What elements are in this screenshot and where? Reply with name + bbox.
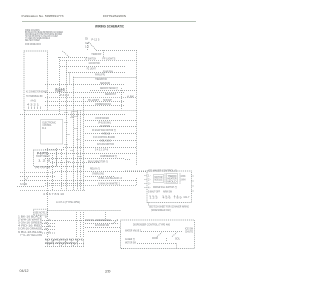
- PTC start relay box: [34, 150, 57, 166]
- ice box pin ticks: [152, 196, 154, 198]
- svg-text:4 RD-18: 4 RD-18: [102, 133, 111, 135]
- wire: [69, 73, 71, 85]
- svg-text:SEE TECH SHEET: SEE TECH SHEET: [25, 40, 40, 42]
- svg-text:4 -: 4 -: [148, 187, 151, 189]
- svg-text:P-12 5: P-12 5: [91, 40, 100, 42]
- power cord slant: [24, 178, 28, 182]
- bottom switch tick: [65, 241, 67, 247]
- svg-text:GN-Y: GN-Y: [184, 197, 190, 199]
- switch slant: [113, 219, 119, 224]
- wire: [85, 126, 137, 128]
- svg-text:3 WH: 3 WH: [181, 180, 186, 182]
- junction tick: [65, 144, 69, 146]
- svg-text:CONTROL: CONTROL: [43, 125, 53, 127]
- ice maker module box 2: [167, 174, 178, 184]
- wire: [45, 180, 137, 182]
- svg-text:2 WH-16 WHITE: 2 WH-16 WHITE: [18, 220, 43, 222]
- wire: [20, 175, 55, 177]
- wire: [61, 150, 63, 190]
- wire: [48, 109, 137, 111]
- svg-text:DEFROST: DEFROST: [105, 94, 117, 96]
- junction tick: [67, 161, 71, 163]
- svg-text:NO C NC NO C NC NO: NO C NC NO C NC NO C: [45, 239, 83, 241]
- svg-text:ICE SW: ICE SW: [185, 228, 194, 230]
- ice maker module box: [154, 175, 164, 183]
- ice box stub: [192, 180, 195, 182]
- switch contact: [49, 240, 54, 245]
- svg-text:(4+2): (4+2): [31, 101, 37, 103]
- wire: [45, 243, 85, 245]
- bottom switch tick: [59, 241, 61, 247]
- wire: [85, 223, 118, 225]
- wire: [176, 244, 178, 249]
- svg-text:STAT: STAT: [103, 99, 113, 102]
- svg-text:WATER FILL SWITCH (*): WATER FILL SWITCH (*): [153, 186, 177, 189]
- svg-text:(P-9) SIGNAL: (P-9) SIGNAL: [98, 121, 112, 124]
- slant wire: [62, 51, 69, 57]
- bottom switch tick: [83, 241, 85, 247]
- slant wire: [89, 42, 96, 50]
- svg-text:1 -: 1 -: [148, 175, 151, 177]
- wire: [76, 212, 78, 238]
- svg-text:DC MOTOR: DC MOTOR: [100, 126, 110, 128]
- wire: [105, 212, 107, 221]
- svg-text:FZ FAN MOTOR: FZ FAN MOTOR: [97, 143, 114, 146]
- junction tick: [71, 117, 75, 119]
- wire dispenser: [141, 231, 183, 233]
- svg-text:COMPRESSOR RUN: COMPRESSOR RUN: [95, 104, 111, 106]
- svg-text:SEE NOTE 2: SEE NOTE 2: [34, 213, 47, 215]
- svg-text:EVAP FAN: EVAP FAN: [103, 70, 113, 73]
- svg-text:1 2 3: 1 2 3: [150, 198, 159, 200]
- svg-text:20: 20: [105, 270, 111, 274]
- AC connector board box: [24, 51, 48, 110]
- wire: [74, 77, 137, 79]
- bottom switch tick: [47, 241, 49, 247]
- junction tick: [77, 139, 81, 141]
- note box: [34, 209, 48, 215]
- wire: [125, 159, 131, 161]
- svg-text:2 -: 2 -: [148, 179, 151, 181]
- terminal leader: [42, 229, 55, 231]
- wire: [48, 210, 121, 212]
- junction tick: [65, 122, 69, 124]
- svg-text:OVERLOAD: OVERLOAD: [92, 173, 104, 176]
- svg-text:AC CONNECTOR BOARD: AC CONNECTOR BOARD: [26, 90, 47, 93]
- svg-text:RUN CAPACITOR (*): RUN CAPACITOR (*): [88, 161, 108, 164]
- svg-text:WATER VALVE 2: WATER VALVE 2: [125, 229, 142, 232]
- svg-text:FF EVAP FAN MOTOR (*): FF EVAP FAN MOTOR (*): [92, 129, 116, 132]
- svg-text:THERMISTOR: THERMISTOR: [95, 79, 107, 81]
- svg-text:4 5 6: 4 5 6: [163, 198, 172, 200]
- wire: [83, 97, 85, 190]
- junction tick: [79, 156, 83, 158]
- svg-text:DOOR SW - DISPENSER FEED: DOOR SW - DISPENSER FEED: [85, 220, 111, 222]
- wire into ice box: [125, 170, 147, 172]
- svg-text:6 BU-18 2: 6 BU-18 2: [100, 140, 112, 142]
- svg-text:4 BK: 4 BK: [181, 176, 186, 178]
- svg-text:THERMOSTAT: THERMOSTAT: [91, 53, 101, 56]
- electronic control box: [41, 120, 63, 145]
- svg-text:FAN MOTOR: FAN MOTOR: [89, 62, 100, 65]
- svg-text:6 WH-14 WHITE 1: 6 WH-14 WHITE 1: [98, 184, 121, 186]
- svg-text:START RELAY: START RELAY: [36, 155, 50, 158]
- wire: [85, 176, 115, 178]
- wire: [77, 110, 79, 190]
- wire: [20, 172, 55, 174]
- wire: [56, 148, 58, 166]
- svg-text:CHUTE: CHUTE: [185, 231, 193, 233]
- terminal leader: [42, 232, 55, 234]
- contact circle: [45, 228, 46, 229]
- svg-text:DISPENSER CONTROL (TYPE 4W): DISPENSER CONTROL (TYPE 4W): [133, 224, 170, 226]
- terminal leader: [42, 223, 55, 225]
- relay coil box: [72, 112, 78, 117]
- svg-text:P-2 CORD: P-2 CORD: [20, 184, 27, 186]
- svg-text:5 4 3 2 1 P-8: 5 4 3 2 1 P-8: [95, 149, 109, 151]
- wire: [17, 185, 45, 187]
- ice box stub: [192, 175, 195, 177]
- wire: [20, 113, 125, 115]
- svg-text:FFHS2622MS: FFHS2622MS: [103, 14, 126, 18]
- switch contact: [61, 241, 66, 246]
- wire: [45, 84, 125, 86]
- svg-text:TIMER (*): TIMER (*): [55, 91, 65, 93]
- wire: [166, 238, 168, 241]
- wire: [48, 153, 137, 155]
- ice box pin ticks: [168, 196, 170, 198]
- svg-text:1 2 3: 1 2 3: [38, 161, 52, 163]
- ice box pin ticks: [177, 196, 179, 198]
- bus left: [24, 110, 26, 186]
- wire: [136, 178, 138, 186]
- contact circle: [49, 219, 50, 220]
- svg-text:Publication No. 5995591773: Publication No. 5995591773: [22, 14, 64, 18]
- wire: [87, 43, 89, 50]
- svg-text:04/12: 04/12: [20, 269, 29, 273]
- wire: [45, 157, 125, 159]
- wire: [45, 166, 85, 168]
- wire: [52, 153, 54, 190]
- wire: [88, 231, 121, 233]
- svg-text:COMPRESSOR (*): COMPRESSOR (*): [100, 156, 117, 158]
- contact circle: [49, 232, 50, 233]
- svg-text:| | | | |: | | | | |: [28, 107, 42, 109]
- ice box stub: [145, 187, 148, 189]
- wire: [85, 133, 137, 135]
- wire: [45, 96, 137, 98]
- svg-text:MOTOR SW: MOTOR SW: [125, 242, 137, 244]
- junction tick: [65, 112, 68, 114]
- svg-text:(4) (5) (6): (4) (5) (6): [35, 167, 50, 169]
- svg-text:THERMO: THERMO: [168, 176, 177, 178]
- svg-text:7 YL-16 YELLOW: 7 YL-16 YELLOW: [20, 235, 43, 237]
- wire: [45, 185, 137, 187]
- junction tick: [67, 134, 71, 136]
- wire: [66, 60, 68, 190]
- wire: [63, 147, 137, 149]
- ice box stub: [145, 183, 148, 185]
- junction tick: [71, 150, 75, 152]
- wire: [20, 189, 85, 191]
- svg-text:MODULE: MODULE: [155, 180, 163, 182]
- svg-text:4 RD-16 RED: 4 RD-16 RED: [18, 226, 43, 228]
- wire: [60, 66, 125, 68]
- wire: [55, 220, 118, 222]
- svg-text:P-3 1-2: P-3 1-2: [60, 95, 70, 97]
- wire: [45, 101, 125, 103]
- ice box pin ticks: [174, 196, 176, 198]
- wire: [66, 72, 125, 74]
- svg-text:WIRING SCHEMATIC: WIRING SCHEMATIC: [95, 24, 124, 29]
- bottom switch tick: [53, 241, 55, 247]
- svg-text:SOL: SOL: [175, 238, 181, 240]
- contact circle: [45, 222, 46, 223]
- terminal leader: [42, 220, 55, 222]
- svg-text:5 OR-16 ORANGE: 5 OR-16 ORANGE: [18, 228, 43, 231]
- ice maker box: [147, 171, 192, 203]
- wire: [90, 90, 137, 92]
- svg-text:TO TERMINAL BD: TO TERMINAL BD: [26, 95, 43, 98]
- svg-text:FF LIGHTS: FF LIGHTS: [102, 59, 116, 61]
- svg-text:1 DOOR HARNESS: 1 DOOR HARNESS: [95, 117, 109, 120]
- svg-text:FAN (FF): FAN (FF): [95, 74, 105, 77]
- dispenser control box: [121, 220, 195, 249]
- wire: [121, 88, 123, 110]
- svg-text:FOR MORE INFO: FOR MORE INFO: [25, 44, 41, 46]
- wire: [80, 110, 82, 190]
- wire: [103, 50, 105, 58]
- svg-text:DOOR: DOOR: [152, 238, 158, 240]
- ice box stub: [145, 175, 148, 177]
- svg-text:SEE TECH SHEET FOR ICE MAKER W: SEE TECH SHEET FOR ICE MAKER WIRING: [149, 206, 189, 209]
- svg-text:P-1 4-5: P-1 4-5: [56, 89, 66, 91]
- wire: [80, 212, 82, 238]
- svg-text:ICE MAKER CONTROL (*): ICE MAKER CONTROL (*): [148, 170, 177, 173]
- svg-text:A 4 P-4 (TYPE 4PW): A 4 P-4 (TYPE 4PW): [56, 201, 80, 204]
- wire: [45, 183, 85, 185]
- svg-text:RELAY (*): RELAY (*): [90, 168, 100, 171]
- ice box stub: [192, 190, 195, 192]
- contact circle: [49, 225, 50, 226]
- wire: [59, 57, 61, 114]
- wire: [60, 59, 137, 61]
- svg-text:(SOME MODELS ONLY): (SOME MODELS ONLY): [151, 210, 171, 212]
- svg-text:SENSOR: SENSOR: [100, 83, 110, 85]
- header rule: [22, 21, 196, 23]
- svg-text:DEFROST HEATER (*): DEFROST HEATER (*): [100, 87, 118, 90]
- wire: [45, 92, 125, 94]
- svg-text:P-5 PTC: P-5 PTC: [37, 153, 48, 155]
- svg-text:ARM SW: ARM SW: [163, 191, 173, 194]
- svg-text:4 BK-14 BLACK 2: 4 BK-14 BLACK 2: [98, 177, 123, 180]
- svg-text:1 BK-16 BLACK: 1 BK-16 BLACK: [18, 216, 43, 219]
- switch contact: [73, 241, 78, 246]
- switch contact: [157, 233, 162, 237]
- ice box pin ticks: [149, 196, 151, 198]
- wire: [45, 246, 85, 248]
- svg-text:LT SWITCH: LT SWITCH: [85, 59, 96, 61]
- wire: [45, 105, 125, 107]
- wire: [83, 212, 85, 238]
- svg-text:FZ DOOR SW: FZ DOOR SW: [95, 225, 110, 227]
- svg-text:AUGER (*): AUGER (*): [125, 238, 135, 241]
- bottom switch tick: [71, 241, 73, 247]
- wire: [85, 140, 137, 142]
- ice box pin ticks: [162, 196, 164, 198]
- wire: [45, 239, 85, 241]
- svg-text:4 5 6 7 8 9 10: 4 5 6 7 8 9 10: [43, 194, 65, 196]
- svg-text:MOLD: MOLD: [168, 181, 177, 183]
- wire: [148, 203, 150, 207]
- svg-text:4 BK: 4 BK: [127, 97, 135, 99]
- switch contact: [172, 233, 177, 237]
- svg-text:HEATER: HEATER: [168, 178, 177, 181]
- bus right: [136, 50, 138, 165]
- svg-text:HI-LIMIT: HI-LIMIT: [88, 100, 100, 102]
- wire: [45, 149, 65, 151]
- terminal leader: [42, 226, 55, 228]
- ice box divider: [164, 174, 166, 185]
- bottom switch tick: [77, 241, 79, 247]
- wire top box: [58, 57, 87, 59]
- svg-text:3 -: 3 -: [148, 183, 151, 185]
- svg-text:3 GN-16 GREEN: 3 GN-16 GREEN: [18, 223, 42, 225]
- svg-text:MOTOR: MOTOR: [155, 177, 163, 179]
- junction tick: [75, 128, 79, 130]
- svg-text:6 BU-16 BLUE: 6 BU-16 BLUE: [18, 232, 43, 234]
- ice box stub: [145, 179, 148, 181]
- contact circle: [45, 216, 46, 217]
- svg-text:FZ LIGHT: FZ LIGHT: [87, 69, 97, 71]
- wire: [73, 77, 75, 191]
- ice box divider: [179, 174, 181, 185]
- wire L1: [96, 50, 137, 52]
- wire: [85, 227, 121, 229]
- wire: [55, 171, 147, 173]
- wire: [50, 162, 100, 164]
- wire: [85, 120, 137, 122]
- wire stub: [121, 248, 125, 250]
- ice box pin ticks: [155, 196, 157, 198]
- wire: [20, 180, 45, 182]
- svg-text:SW1 SW2 SW3: SW1 SW2 SW3: [45, 243, 76, 245]
- wire dispenser: [137, 243, 176, 245]
- svg-text:SHUT-OFF: SHUT-OFF: [150, 192, 161, 194]
- ice box pin ticks: [165, 196, 167, 198]
- wire: [47, 148, 49, 238]
- ice box stub: [192, 185, 195, 187]
- svg-text:7 8 9: 7 8 9: [174, 198, 183, 200]
- svg-text:P-13 CONTROL BOARD: P-13 CONTROL BOARD: [93, 136, 115, 139]
